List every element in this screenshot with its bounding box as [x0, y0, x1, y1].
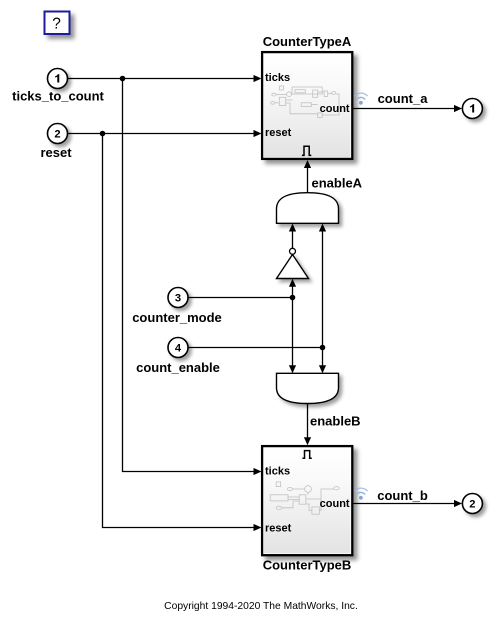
inport 4 — [168, 338, 188, 358]
inport 2 — [48, 124, 68, 144]
svg-text:reset: reset — [265, 127, 292, 139]
svg-text:count_b: count_b — [377, 488, 428, 503]
svg-text:?: ? — [52, 15, 61, 32]
logging badge B — [355, 488, 368, 500]
wire: NOT output up to AND1 left input — [289, 224, 296, 249]
subsystem CounterTypeB — [262, 446, 352, 555]
wire: CounterTypeB count to Out2 — [353, 500, 462, 507]
help ? box — [45, 12, 70, 35]
AND gate enableB (pointing down) — [277, 373, 339, 403]
svg-text:ticks: ticks — [265, 466, 290, 478]
label count_b — [377, 488, 428, 503]
wire: AND2 output to CounterTypeB enable — [304, 404, 311, 446]
label ticks (inside B) — [265, 466, 290, 478]
svg-text:enableA: enableA — [312, 176, 363, 191]
copyright note — [164, 601, 358, 612]
svg-text:reset: reset — [265, 522, 292, 534]
label counter_mode — [132, 310, 222, 325]
svg-text:count: count — [320, 498, 350, 510]
wire: ticks branch down to CounterTypeB — [123, 79, 262, 476]
inport 1 — [48, 69, 68, 89]
outport 2 — [462, 494, 482, 514]
junction counter_mode node — [290, 295, 296, 301]
svg-text:Copyright 1994-2020 The MathWo: Copyright 1994-2020 The MathWorks, Inc. — [164, 601, 358, 612]
label count (inside A) — [320, 103, 350, 115]
CounterTypeB preview diagram — [270, 482, 339, 514]
label ticks_to_count — [12, 89, 104, 104]
svg-text:counter_mode: counter_mode — [132, 310, 222, 325]
wire: reset branch down to CounterTypeB — [103, 134, 262, 532]
junction on reset wire — [100, 131, 106, 137]
enable pulse icon B — [302, 451, 311, 459]
CounterTypeA preview diagram — [271, 86, 339, 117]
junction on ticks wire — [120, 76, 126, 82]
enable pulse icon A — [302, 146, 311, 155]
wire: In1 to CounterTypeA ticks — [68, 75, 262, 82]
svg-text:count_a: count_a — [378, 91, 429, 106]
svg-text:ticks_to_count: ticks_to_count — [12, 89, 104, 104]
svg-text:3: 3 — [175, 293, 181, 305]
wire: In3 counter_mode to node — [188, 297, 293, 299]
svg-text:count_enable: count_enable — [136, 360, 220, 375]
svg-text:reset: reset — [40, 145, 72, 160]
label enableA — [312, 176, 363, 191]
wire: count_enable vertical up to AND1 right input — [319, 224, 326, 348]
label count (inside B) — [320, 498, 350, 510]
svg-text:2: 2 — [469, 499, 475, 511]
wire: node down to AND2 left input — [289, 298, 296, 374]
svg-text:ticks: ticks — [265, 72, 290, 84]
wire: count_enable vertical down to AND2 right input — [319, 348, 326, 374]
svg-text:CounterTypeB: CounterTypeB — [263, 557, 352, 572]
label enableB — [310, 414, 361, 429]
wire: AND1 output to CounterTypeA enable — [304, 160, 311, 193]
label CounterTypeA — [263, 34, 352, 49]
wire: CounterTypeA count to Out1 — [353, 105, 462, 112]
inport 3 — [168, 288, 188, 308]
label reset (inside A) — [265, 127, 292, 139]
label count_a — [378, 91, 429, 106]
label ticks (inside A) — [265, 72, 290, 84]
svg-text:CounterTypeA: CounterTypeA — [263, 34, 352, 49]
svg-text:4: 4 — [175, 343, 182, 355]
svg-text:enableB: enableB — [310, 414, 361, 429]
outport 1 — [462, 99, 482, 119]
svg-text:2: 2 — [54, 129, 60, 141]
wire: In4 count_enable to node — [188, 347, 323, 349]
subsystem CounterTypeA — [262, 52, 352, 159]
wire: node up into NOT gate — [289, 279, 296, 298]
logging badge A — [355, 93, 368, 105]
label count_enable — [136, 360, 220, 375]
junction count_enable node — [320, 345, 326, 351]
label reset (inside B) — [265, 522, 292, 534]
wire: In2 to CounterTypeA reset — [68, 130, 262, 137]
label reset — [40, 145, 72, 160]
AND gate enableA (pointing up) — [277, 193, 339, 224]
NOT gate — [277, 248, 309, 278]
label CounterTypeB — [263, 557, 352, 572]
svg-text:count: count — [320, 103, 350, 115]
